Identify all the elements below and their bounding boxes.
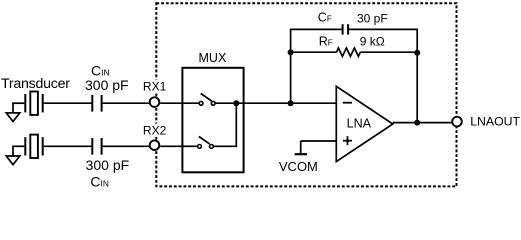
wire CF branch right [349,28,418,30]
VCOM rail bar [295,153,307,155]
svg-text:300 pF: 300 pF [86,157,130,173]
resistor RF zigzag [337,48,361,56]
junction dot LNA minus node [288,100,294,106]
op-amp minus sign [343,102,352,104]
svg-text:LNAOUT: LNAOUT [470,115,520,129]
capacitor CIN2 [92,138,101,155]
label RX1 [143,80,169,94]
switch SW2 [198,137,214,149]
wire RF branch right [360,51,417,53]
svg-text:RX2: RX2 [143,124,167,138]
wire LNA plus input [301,140,337,142]
node RX1 pin circle [150,97,160,107]
wire CIN1 to RX1 [103,102,150,104]
wire RX2 inside MUX [182,145,197,147]
dashed chip boundary box [156,3,456,186]
wire feedback right vertical [416,29,418,122]
junction dot RF left [288,49,294,55]
wire LNA output [393,122,452,124]
svg-text:300 pF: 300 pF [85,77,129,93]
svg-text:MUX: MUX [199,51,227,65]
wire RX2 to MUX [160,145,182,147]
svg-text:VCOM: VCOM [279,159,318,174]
wire RF branch left [291,51,337,53]
capacitor CIN1 [92,95,101,112]
transducer XDCR2 ground arrow [6,146,20,164]
wire CF branch left [290,28,342,30]
wire feedback left vertical [290,29,292,103]
MUX box [182,68,243,173]
svg-text:LNA: LNA [347,117,372,131]
switch SW1 [199,93,215,105]
transducer XDCR1 crystal [25,92,42,115]
label RX2 [143,124,169,138]
wire transducer2 stub [12,145,24,147]
junction dot output feedback [414,120,420,126]
junction dot RF right [414,50,420,56]
wire CIN2 to RX2 [103,145,150,147]
op-amp U1 LNA triangle [336,86,393,161]
wire SW2 output to junction [214,103,237,146]
wire VCOM vertical [300,141,302,154]
wire transducer2 to CIN2 [44,145,92,147]
node RX2 pin circle [150,140,160,150]
wire SW1 to LNA minus input [216,102,337,104]
wire transducer1 stub [12,102,24,104]
node LNAOUT pin circle [452,117,462,127]
wire RX1 to MUX [160,102,182,104]
wire transducer1 to CIN1 [44,102,92,104]
wire RX1 inside MUX [182,102,199,104]
transducer XDCR1 ground arrow [6,103,20,121]
transducer XDCR2 crystal [25,135,42,158]
svg-text:RX1: RX1 [143,80,167,94]
capacitor CF [343,24,349,34]
op-amp plus sign [343,136,352,145]
svg-text:30 pF: 30 pF [357,12,388,26]
svg-text:Transducer: Transducer [1,76,70,92]
svg-text:9 kΩ: 9 kΩ [360,35,385,49]
junction dot MUX output [233,100,239,106]
